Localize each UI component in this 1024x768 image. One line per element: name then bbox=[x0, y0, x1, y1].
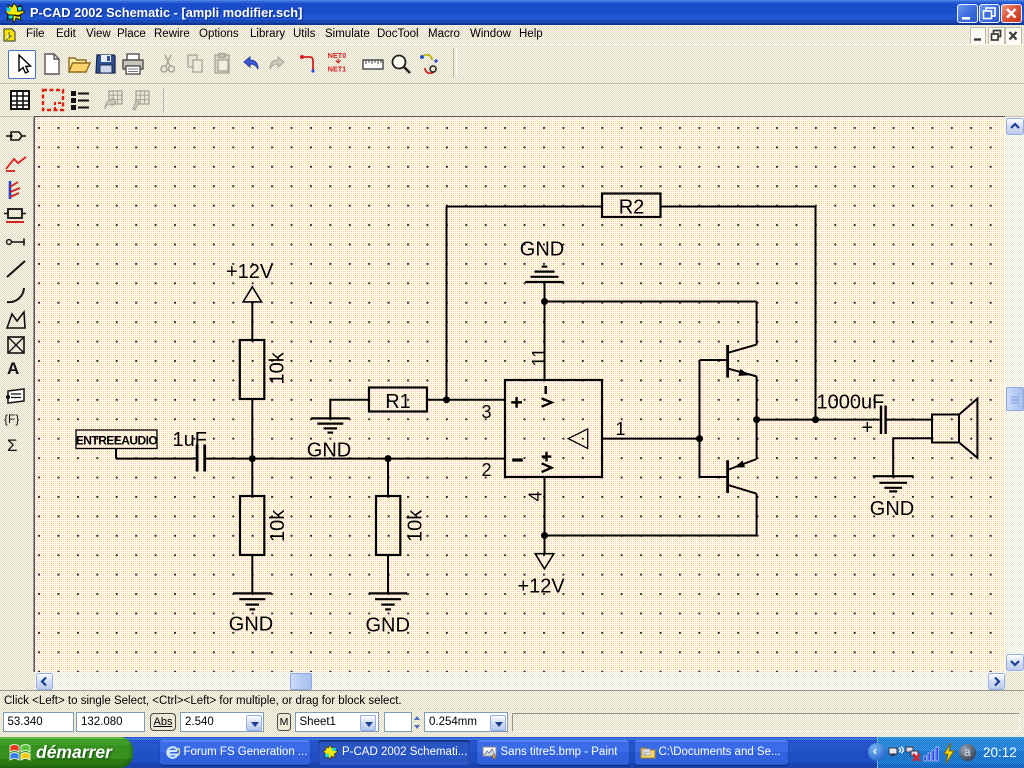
tray icon: signal bars bbox=[923, 744, 941, 762]
task button: Paint bbox=[477, 740, 629, 765]
print bbox=[121, 52, 145, 76]
schematic canvas bbox=[35, 117, 1005, 672]
transistor Q2 emitter bbox=[729, 459, 757, 470]
port ENTREEAUDIO box bbox=[76, 430, 157, 449]
open folder bbox=[67, 52, 91, 76]
toolbar row 2 bbox=[0, 84, 1024, 117]
measure ruler bbox=[361, 52, 385, 76]
junction R1-R2-pin3 bbox=[443, 396, 450, 403]
wire Q1 collector vertical bbox=[756, 302, 758, 345]
wire Q2 emitter vertical bbox=[756, 420, 758, 459]
wire output node to capacitor bbox=[757, 419, 880, 421]
svg-text:1uF: 1uF bbox=[173, 429, 207, 451]
task button: P-CAD (active) bbox=[318, 740, 470, 765]
task button: Forum FS bbox=[160, 740, 310, 765]
svg-text:4: 4 bbox=[526, 491, 546, 501]
ground symbol below R5 bbox=[369, 593, 407, 609]
tray icon: network disabled bbox=[905, 745, 922, 762]
left tool palette bbox=[0, 117, 34, 690]
transistor Q2 collector bbox=[729, 485, 757, 494]
wire Q1 base horizontal bbox=[700, 359, 727, 361]
wire input net to op-amp pin 2 bbox=[206, 458, 505, 460]
P-CAD app icon bbox=[5, 3, 25, 23]
resistor R1 box bbox=[369, 388, 427, 412]
svg-text:11: 11 bbox=[529, 348, 549, 367]
svg-text:+12V: +12V bbox=[226, 261, 274, 283]
redo (disabled) bbox=[265, 52, 289, 76]
tray collapse arrow bbox=[868, 743, 886, 761]
horizontal scrollbar bbox=[35, 672, 1005, 690]
vertical scrollbar bbox=[1005, 117, 1024, 672]
op-amp triangle glyph bbox=[568, 429, 587, 449]
minimize button bbox=[957, 4, 978, 24]
save floppy bbox=[94, 52, 118, 76]
svg-text:GND: GND bbox=[307, 440, 351, 462]
wire bases vertical bbox=[699, 360, 701, 477]
ground symbol at speaker bbox=[873, 476, 914, 491]
svg-text:3: 3 bbox=[482, 402, 492, 422]
transistor Q1 emitter arrow bbox=[738, 369, 749, 376]
svg-text:10k: 10k bbox=[405, 509, 427, 542]
wire R1 right to op-amp pin 3 bbox=[427, 399, 505, 401]
new document bbox=[40, 52, 64, 76]
taskbar bbox=[0, 737, 1024, 768]
wire ENTREEAUDIO stub bbox=[115, 448, 117, 459]
capacitor C1 plates bbox=[197, 445, 205, 472]
palette: place wire bbox=[4, 153, 28, 173]
mdi minimize/restore/close bbox=[970, 27, 987, 45]
junction feedback node bbox=[812, 416, 819, 423]
transistor Q1 base bar bbox=[726, 345, 729, 378]
zoom bbox=[389, 52, 413, 76]
resistor R2 box bbox=[602, 194, 661, 218]
op-amp V- marker bbox=[542, 386, 552, 407]
svg-text:NET0: NET0 bbox=[328, 51, 346, 60]
window title bar bbox=[0, 0, 1024, 25]
svg-text:10k: 10k bbox=[267, 351, 289, 384]
tray clock bbox=[983, 745, 1017, 760]
transistor Q2 base bar bbox=[726, 460, 729, 493]
wire R2 right horizontal bbox=[661, 206, 816, 208]
svg-text:1000uF: 1000uF bbox=[817, 392, 885, 414]
palette: place text bbox=[7, 359, 19, 379]
selected arrow tool button bbox=[8, 50, 36, 79]
svg-text:GND: GND bbox=[365, 615, 409, 637]
disabled grid tool 2 bbox=[128, 88, 152, 112]
junction base node bbox=[696, 435, 703, 442]
wire op-amp pin 11 bbox=[544, 302, 546, 381]
op-amp U1 body bbox=[505, 380, 602, 477]
toolbar1 end groove bbox=[453, 48, 457, 78]
transistor Q2 emitter arrow bbox=[734, 461, 745, 468]
status message bar bbox=[0, 690, 1024, 710]
ground symbol below R4 bbox=[233, 593, 271, 609]
wire Q2 base horizontal bbox=[700, 476, 727, 478]
palette: place field bbox=[4, 412, 19, 426]
svg-text:GND: GND bbox=[229, 614, 273, 636]
wire R1 left to ground stub bbox=[330, 400, 369, 418]
net rename NET0/NET1 bbox=[327, 50, 351, 74]
palette: place part bbox=[4, 126, 28, 146]
palette: place polygon bbox=[4, 309, 28, 331]
wire R2 feedback left vertical bbox=[446, 207, 448, 400]
wire R bottom1 to ground bbox=[251, 555, 253, 593]
power +12V symbol bottom (down) bbox=[535, 554, 554, 569]
title text bbox=[30, 5, 302, 20]
toolbar row 1 bbox=[0, 44, 1024, 84]
palette: place port bbox=[3, 205, 29, 227]
wire op-amp output pin 1 bbox=[602, 438, 700, 440]
status fields bar bbox=[0, 710, 1024, 737]
table icon bbox=[8, 88, 32, 112]
junction +12V rail bbox=[541, 532, 548, 539]
wire speaker bottom to ground bbox=[893, 438, 932, 476]
wire R2 left horizontal bbox=[447, 206, 603, 208]
junction B bbox=[385, 455, 392, 462]
junction emitter node bbox=[753, 416, 760, 423]
wire R top to junction A bbox=[251, 399, 253, 496]
op-amp minus input marker bbox=[512, 458, 523, 461]
wire capacitor to speaker bbox=[887, 419, 933, 421]
wire R bottom2 to ground bbox=[387, 555, 389, 593]
menu bar bbox=[0, 25, 1024, 44]
svg-text:+: + bbox=[862, 417, 874, 439]
wire GND top stub bbox=[544, 283, 546, 302]
system tray bbox=[877, 737, 1024, 768]
palette: place line bbox=[4, 258, 28, 280]
cut (disabled) bbox=[156, 52, 180, 76]
wire junction B to R bottom2 bbox=[387, 459, 389, 496]
palette: place ref point bbox=[4, 334, 28, 356]
resistor R4 body bbox=[240, 496, 264, 555]
rewire tool bbox=[298, 52, 322, 76]
palette: place attribute bbox=[4, 385, 28, 405]
wire R2 right vertical bbox=[815, 207, 817, 420]
svg-text:+12V: +12V bbox=[518, 576, 566, 598]
task button: Documents folder bbox=[635, 740, 788, 765]
wire +12V to R top bbox=[251, 302, 253, 340]
capacitor C2 plates bbox=[881, 406, 886, 435]
ground symbol above op-amp (flipped) bbox=[525, 267, 563, 282]
windows flag logo bbox=[9, 742, 33, 764]
transistor Q1 collector bbox=[729, 345, 757, 353]
palette: place symbol bbox=[7, 436, 18, 456]
record structure icon (red dashed) bbox=[41, 88, 65, 112]
junction A bbox=[249, 455, 256, 462]
svg-text:2: 2 bbox=[482, 460, 492, 480]
junction gnd rail bbox=[541, 298, 548, 305]
svg-text:10k: 10k bbox=[267, 509, 289, 542]
svg-text:GND: GND bbox=[870, 498, 914, 520]
op-amp V+ marker bbox=[542, 452, 552, 472]
close button bbox=[1001, 4, 1022, 24]
power +12V symbol top bbox=[243, 287, 261, 302]
svg-text:NET1: NET1 bbox=[328, 65, 346, 74]
disabled grid tool 1 bbox=[101, 88, 125, 112]
tray icon: lightning bbox=[941, 742, 957, 764]
wire Q2 collector vertical bbox=[756, 494, 758, 536]
paste (disabled) bbox=[211, 52, 235, 76]
wire op-amp pin 4 to +12V bbox=[544, 477, 546, 554]
svg-text:ENTREEAUDIO: ENTREEAUDIO bbox=[76, 433, 158, 447]
wire Q1 emitter vertical bbox=[756, 376, 758, 419]
speaker LS1 horn bbox=[959, 399, 977, 458]
list icon bbox=[68, 88, 92, 112]
copy (disabled) bbox=[184, 52, 208, 76]
wire bottom rail bbox=[545, 535, 757, 537]
palette: place pin bbox=[4, 234, 28, 250]
palette: place arc bbox=[4, 284, 28, 306]
bottom-left corner bbox=[0, 672, 35, 690]
wire input net left bbox=[116, 458, 196, 460]
canvas sunken border bbox=[34, 116, 1005, 118]
start button bbox=[0, 737, 133, 768]
bus connection tool bbox=[417, 52, 441, 76]
op-amp plus input marker bbox=[511, 397, 522, 408]
resistor R3 body bbox=[240, 340, 264, 399]
svg-text:R2: R2 bbox=[619, 197, 645, 219]
svg-text:1: 1 bbox=[616, 419, 626, 439]
wire gnd rail to collector Q1 bbox=[545, 301, 757, 303]
tray icon: network wireless bbox=[888, 745, 904, 761]
transistor Q1 emitter bbox=[729, 369, 757, 377]
resistor R5 body bbox=[376, 496, 400, 555]
ground symbol at R1 input bbox=[311, 418, 349, 432]
toolbar2 separator bbox=[163, 88, 167, 113]
svg-text:R1: R1 bbox=[385, 391, 411, 413]
tray icon: sphere a bbox=[959, 744, 976, 761]
maximize button bbox=[979, 4, 1000, 24]
undo bbox=[239, 52, 263, 76]
speaker LS1 body bbox=[932, 415, 959, 443]
palette: place bus bbox=[4, 179, 28, 201]
svg-text:GND: GND bbox=[520, 239, 564, 261]
